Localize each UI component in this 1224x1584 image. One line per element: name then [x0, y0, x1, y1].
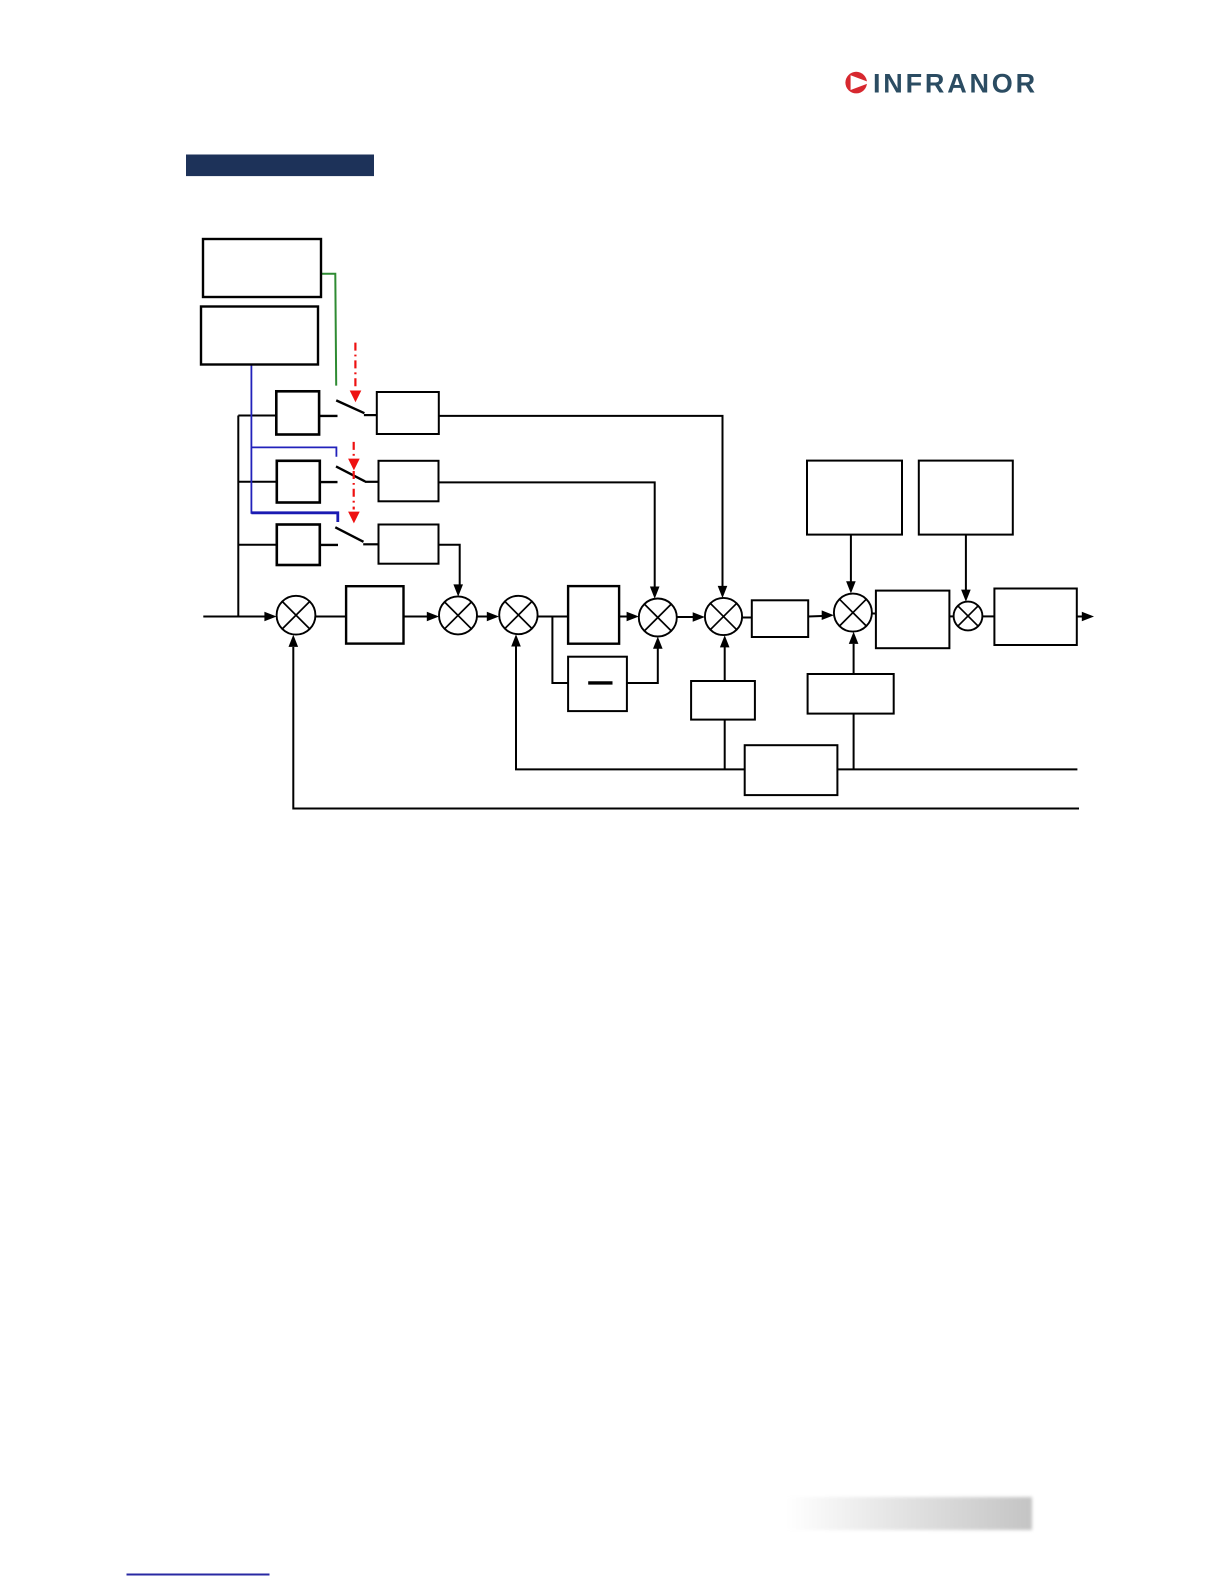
svg-text:INFRANOR: INFRANOR [873, 68, 1038, 98]
